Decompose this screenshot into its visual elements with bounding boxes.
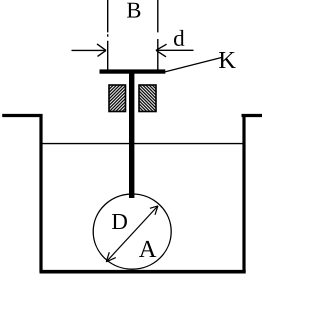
label B (127, 3, 140, 18)
label d (174, 30, 184, 46)
diameter arrow (double-headed, through sphere) (106, 206, 158, 262)
container right rim (242, 114, 263, 117)
tube B right wall (157, 0, 159, 71)
sphere A (circle) (93, 194, 171, 269)
right support block (hatched) (139, 85, 156, 112)
leader line to K (163, 58, 222, 73)
left support block (hatched) (109, 85, 126, 112)
label D (112, 214, 127, 229)
label K (219, 52, 236, 68)
container left rim (2, 114, 42, 117)
plate K (thick bar) (100, 69, 166, 73)
container bottom (40, 270, 246, 274)
label A (139, 241, 156, 257)
dimension arrow right (points left at tube wall) (156, 44, 194, 57)
container left wall (39, 114, 42, 272)
liquid level line (43, 143, 243, 145)
rod (thick vertical) (129, 73, 134, 198)
dimension arrow left (points right at tube wall) (72, 44, 107, 57)
container right wall (242, 114, 245, 272)
tube B left wall (107, 0, 109, 71)
